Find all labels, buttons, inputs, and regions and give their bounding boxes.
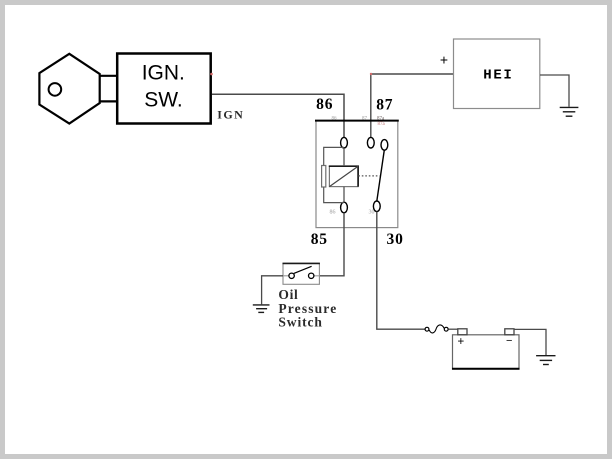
svg-text:+: +: [457, 336, 464, 348]
svg-text:−: −: [506, 335, 512, 347]
svg-text:+: +: [440, 52, 448, 68]
svg-text:87a: 87a: [378, 122, 386, 127]
svg-text:30: 30: [369, 209, 375, 215]
svg-text:87: 87: [376, 96, 393, 113]
svg-text:SW.: SW.: [144, 88, 183, 111]
svg-text:IGN: IGN: [217, 108, 244, 122]
svg-text:86: 86: [332, 116, 338, 121]
svg-text:IGN.: IGN.: [142, 61, 185, 84]
svg-text:87a: 87a: [377, 117, 385, 122]
svg-text:HEI: HEI: [483, 68, 513, 84]
svg-text:86: 86: [316, 96, 333, 113]
svg-text:86: 86: [330, 209, 336, 215]
svg-text:85: 85: [311, 231, 328, 248]
svg-text:30: 30: [387, 231, 404, 248]
svg-text:87: 87: [362, 116, 368, 121]
svg-text:Switch: Switch: [278, 315, 322, 330]
svg-text:Oil: Oil: [278, 287, 298, 302]
